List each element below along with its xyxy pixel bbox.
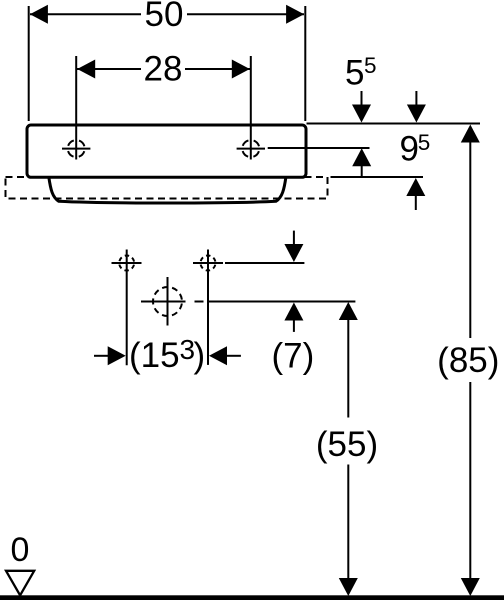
dimension 28: left arrowhead bbox=[77, 60, 95, 79]
dim (15.3): right arrow tail bbox=[226, 355, 241, 357]
dim (55): bottom arrowhead (down) bbox=[339, 578, 358, 596]
reference line D: fixing hole level bbox=[225, 262, 304, 264]
svg-text:(7): (7) bbox=[272, 337, 315, 376]
datum triangle symbol bbox=[6, 571, 34, 596]
drain: centreline dash bbox=[195, 301, 204, 303]
dim (15.3): left arrowhead (pointing right) bbox=[108, 346, 126, 365]
dimension 28: extension/centre line left (continues through tap hole) bbox=[75, 56, 77, 160]
dimension 50: extension line right bbox=[304, 6, 306, 121]
dimension 28: dimension line bbox=[77, 68, 250, 70]
basin bowl curve bbox=[49, 177, 286, 203]
svg-text:(55): (55) bbox=[316, 425, 378, 464]
svg-text:5: 5 bbox=[345, 54, 364, 93]
svg-text:(85): (85) bbox=[437, 341, 499, 380]
reference line B: tap hole level bbox=[268, 147, 370, 149]
dim (55): vertical line upper part bbox=[347, 318, 349, 418]
fixing hole left: vertical line down to dimension bbox=[126, 250, 128, 366]
svg-text:28: 28 bbox=[144, 50, 183, 89]
floor line bbox=[0, 595, 504, 600]
reference line E: drain level bbox=[208, 301, 355, 303]
dimension 50: extension line left bbox=[28, 6, 30, 121]
dim 5.5: upper arrow tail bbox=[361, 91, 363, 106]
svg-text:(15: (15 bbox=[129, 336, 180, 375]
fixing hole right: vertical line down to dimension bbox=[207, 250, 209, 365]
dim (85): bottom arrowhead (down) bbox=[461, 578, 480, 596]
dim (7): lower arrowhead (up) bbox=[284, 303, 303, 321]
dim 9.5: upper arrow tail bbox=[415, 91, 417, 106]
dimension 50: right arrowhead bbox=[286, 5, 304, 24]
dim (55): vertical line lower part bbox=[347, 465, 349, 581]
dimension 28: label bbox=[141, 60, 185, 77]
fixing hole right: dashed circle bbox=[201, 256, 216, 271]
dim (7): lower arrow tail bbox=[293, 319, 295, 332]
fixing hole left: dashed circle bbox=[119, 256, 134, 271]
dim (7): upper arrowhead (down) bbox=[284, 244, 303, 262]
tap hole left: cross bbox=[62, 148, 90, 150]
svg-text:): ) bbox=[194, 336, 206, 375]
dim (15.3): left arrow tail bbox=[94, 355, 109, 357]
dim (85): top arrowhead (up) bbox=[461, 125, 480, 143]
dashed ceramic outline (plan projection) bbox=[6, 177, 328, 199]
svg-text:9: 9 bbox=[400, 130, 419, 169]
dim (55): top arrowhead (up) bbox=[339, 302, 358, 320]
dimension 50: left arrowhead bbox=[30, 5, 48, 24]
drain: dashed circle bbox=[153, 287, 182, 316]
dim 5.5: upper arrowhead (down) bbox=[352, 105, 371, 123]
dim 9.5: upper arrowhead (down) bbox=[407, 105, 426, 123]
svg-text:50: 50 bbox=[145, 0, 184, 34]
drain: horizontal arm bbox=[141, 301, 186, 303]
svg-text:5: 5 bbox=[364, 53, 377, 78]
dim 5.5: lower arrow tail bbox=[361, 165, 363, 176]
dimension 28: right arrowhead bbox=[232, 60, 250, 79]
drain: vertical arm bbox=[167, 277, 169, 326]
tap hole right: cross bbox=[237, 148, 265, 150]
dim 9.5: lower arrow tail bbox=[415, 195, 417, 210]
dim (85): vertical line lower part bbox=[469, 382, 471, 580]
dimension 50: dimension line bbox=[30, 13, 304, 15]
tap hole right: dashed circle bbox=[242, 140, 259, 157]
fixing hole left: horizontal arm bbox=[112, 262, 142, 264]
dim (7): upper arrow tail bbox=[293, 231, 295, 246]
dim 9.5: lower arrowhead (up) bbox=[406, 178, 425, 196]
fixing hole right: horizontal arm bbox=[193, 262, 223, 264]
reference line C: ceramic lower edge level bbox=[331, 176, 424, 178]
svg-text:0: 0 bbox=[10, 531, 29, 569]
dimension 28: extension/centre line right bbox=[250, 56, 252, 160]
dim 5.5: lower arrowhead (up) bbox=[352, 148, 371, 166]
reference line A: basin rim level bbox=[307, 123, 481, 125]
dim (85): vertical line upper part bbox=[469, 140, 471, 338]
tap hole left: dashed circle bbox=[68, 140, 85, 157]
dimension 50: label bbox=[141, 5, 187, 24]
washbasin body (front view) bbox=[27, 125, 306, 177]
dim (15.3): right arrowhead (pointing left) bbox=[209, 346, 227, 365]
svg-text:5: 5 bbox=[418, 130, 431, 155]
